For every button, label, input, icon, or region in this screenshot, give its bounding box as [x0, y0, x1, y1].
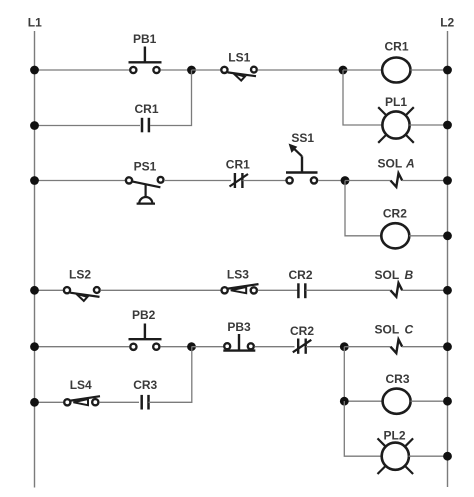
wire CR3 coil to rail — [411, 400, 448, 402]
wire node to LS1 — [192, 69, 221, 71]
junction rail L1 LS4 branch — [30, 398, 39, 407]
limit switch LS4 — [64, 378, 100, 405]
wire CR2 coil to rail — [409, 235, 447, 237]
wire CR1 coil to rail — [410, 69, 447, 71]
wire LS3 to CR2 contact — [258, 289, 298, 291]
junction rail L2 rung1 — [443, 66, 452, 75]
wire CR1 contact branch — [35, 125, 141, 127]
svg-text:SS1: SS1 — [291, 131, 314, 145]
wire SOL C to rail — [402, 346, 448, 348]
junction node CR1/PL1 — [339, 66, 348, 75]
junction rail L2 CR2 — [443, 231, 452, 240]
limit switch LS3 — [222, 267, 259, 293]
wire PL1 branch riser — [343, 70, 383, 125]
wire PL1 to rail — [409, 124, 447, 126]
junction rail L2 rung4 — [443, 342, 452, 351]
wire PS1 to CR1 contact — [164, 180, 231, 182]
solenoid SOL A — [378, 157, 415, 187]
svg-text:PL1: PL1 — [385, 95, 407, 109]
wire SS1 to node — [318, 180, 345, 182]
solenoid SOL C — [375, 323, 414, 354]
wire PB1 to node — [161, 69, 192, 71]
junction node after PB2 — [187, 342, 196, 351]
wire SOL A to rail — [402, 180, 448, 182]
limit switch LS1 — [221, 51, 257, 81]
junction rail L2 rung2 — [443, 176, 452, 185]
wire PB2 to node — [160, 346, 191, 348]
wire PL2 branch riser — [344, 401, 382, 456]
svg-text:LS2: LS2 — [69, 267, 91, 281]
wire CR1 contact to SS1 — [243, 180, 287, 182]
svg-text:C: C — [405, 323, 414, 337]
junction rail L1 rung2 — [30, 176, 39, 185]
svg-text:LS1: LS1 — [228, 51, 250, 65]
wire rung1 left — [35, 69, 130, 71]
junction node after PB1 — [187, 66, 196, 75]
wire PL2 to rail — [409, 455, 448, 457]
svg-text:CR3: CR3 — [133, 378, 157, 392]
wire LS4 branch left — [35, 401, 64, 403]
wire CR3 contact to riser — [149, 347, 192, 403]
wire PB3 to CR2 contact — [255, 346, 295, 348]
svg-text:L2: L2 — [440, 16, 454, 30]
svg-text:PB2: PB2 — [132, 308, 156, 322]
rail L2 — [440, 16, 454, 488]
rail L1 — [28, 16, 42, 488]
svg-text:PB3: PB3 — [227, 320, 251, 334]
svg-text:PS1: PS1 — [134, 159, 157, 173]
junction rail L2 CR3 — [443, 397, 452, 406]
junction rail L1 rung4 — [30, 342, 39, 351]
svg-text:LS3: LS3 — [227, 267, 249, 281]
junction node CR3 branch — [340, 397, 349, 406]
junction rail L2 PL2 — [443, 452, 452, 461]
wire node to PB3 — [192, 346, 224, 348]
junction node SOLC/CR3 — [340, 342, 349, 351]
wire LS4 to CR3 contact — [99, 401, 139, 403]
svg-text:PL2: PL2 — [383, 429, 405, 443]
wire CR2 contact to node — [306, 346, 344, 348]
wire LS2 to LS3 — [100, 289, 220, 291]
contact CR1 NC — [226, 158, 250, 188]
coil CR1 — [382, 40, 410, 83]
junction rail L1 rung3 — [30, 286, 39, 295]
svg-text:CR2: CR2 — [383, 207, 407, 221]
svg-text:SOL: SOL — [375, 268, 400, 282]
junction rail L1 branch — [30, 121, 39, 130]
svg-text:L1: L1 — [28, 16, 42, 30]
wire node to CR1 coil — [343, 69, 382, 71]
pushbutton PB2 — [129, 308, 162, 350]
wire CR2 contact to SOL B — [306, 289, 391, 291]
solenoid SOL B — [375, 268, 414, 297]
pilot light PL1 — [378, 95, 414, 143]
wire LS1 to node — [258, 69, 344, 71]
contact CR3 NO — [133, 378, 157, 410]
pilot light PL2 — [378, 429, 414, 475]
coil CR2 — [381, 207, 409, 249]
svg-text:CR1: CR1 — [134, 102, 158, 116]
wire node to SOL C — [344, 346, 390, 348]
junction node SOLA/CR2 — [341, 176, 350, 185]
coil CR3 — [383, 372, 411, 414]
svg-text:SOL: SOL — [378, 157, 403, 171]
wire rung4 left — [35, 346, 130, 348]
wire SOL B to rail — [402, 289, 448, 291]
contact CR2 NC — [290, 324, 314, 354]
junction rail L2 rung3 — [443, 286, 452, 295]
wire rung3 left — [35, 289, 64, 291]
wire CR1 contact to riser — [150, 70, 192, 126]
svg-text:A: A — [405, 157, 415, 171]
wire CR3 coil branch riser — [344, 347, 382, 402]
svg-text:B: B — [405, 268, 414, 282]
contact CR1 NO — [134, 102, 158, 133]
svg-text:PB1: PB1 — [133, 32, 157, 46]
junction rail L1 rung1 — [30, 66, 39, 75]
svg-text:CR2: CR2 — [290, 324, 314, 338]
svg-text:LS4: LS4 — [70, 378, 92, 392]
svg-text:SOL: SOL — [375, 323, 400, 337]
selector switch SS1 — [286, 131, 318, 183]
limit switch LS2 — [64, 267, 100, 301]
svg-text:CR1: CR1 — [226, 158, 250, 172]
wire rung2 left — [35, 180, 126, 182]
pushbutton PB1 — [129, 32, 162, 73]
svg-text:CR3: CR3 — [385, 372, 409, 386]
svg-text:CR1: CR1 — [384, 40, 408, 54]
wire node to SOL A — [345, 180, 391, 182]
junction rail L2 PL1 — [443, 121, 452, 130]
pressure switch PS1 — [126, 159, 164, 203]
contact CR2 NO — [288, 268, 312, 298]
pushbutton PB3 NC — [223, 320, 255, 351]
svg-text:CR2: CR2 — [288, 268, 312, 282]
wire CR2 coil branch — [345, 181, 381, 236]
